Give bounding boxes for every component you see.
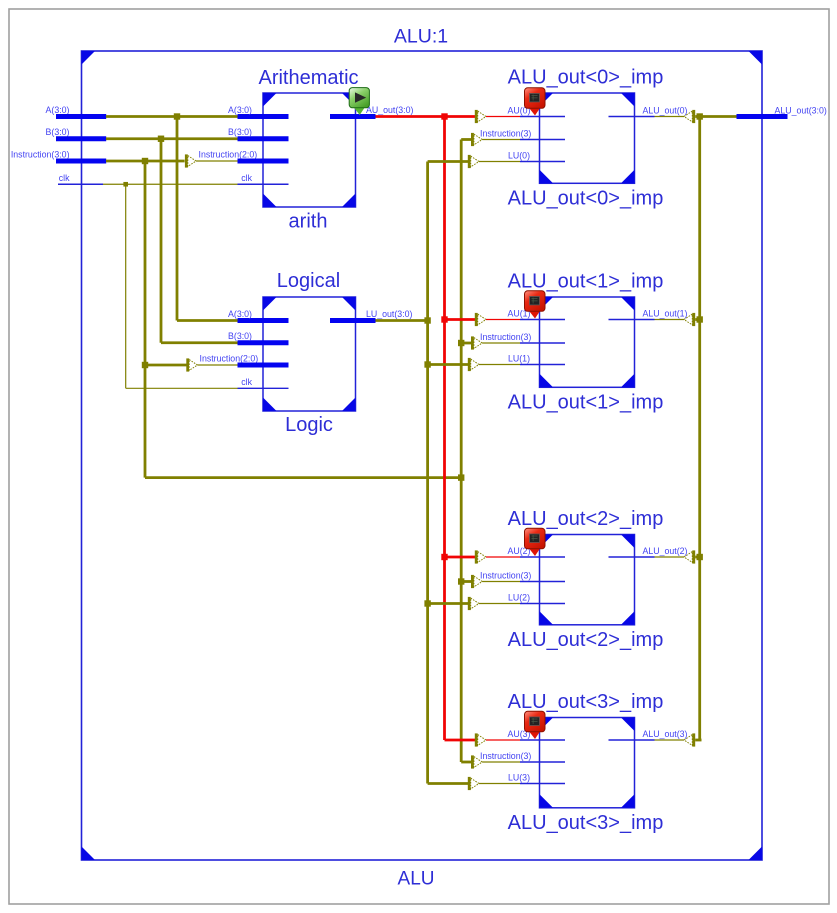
junction ALU_out bus row1: [697, 316, 703, 322]
junction IN bus row2: [458, 578, 464, 584]
wire ALU_out(1) to bus: [695, 318, 701, 321]
red marker on ALU_out<2>_imp: [525, 528, 546, 556]
wire ALU_out bus to port: [700, 115, 737, 118]
svg-text:Instruction(3): Instruction(3): [480, 570, 531, 580]
svg-text:Instruction(3:0): Instruction(3:0): [11, 150, 70, 160]
wire Instruction(3) bus vertical: [460, 140, 463, 763]
wire AU(3) thin: [486, 739, 520, 741]
bus ripper LU(2): [468, 597, 479, 610]
wire AU(1) branch: [445, 318, 476, 321]
svg-text:clk: clk: [241, 173, 252, 183]
block Logic (Logical): [263, 297, 356, 411]
svg-text:clk: clk: [59, 173, 70, 183]
block ALU_out<3>_imp: [540, 718, 635, 808]
wire A tap to Logic: [177, 319, 238, 322]
svg-text:ALU_out<0>_imp: ALU_out<0>_imp: [508, 67, 664, 89]
arith pin Instruction(2:0) stub: [238, 159, 289, 164]
wire AU_out(3:0) from arith: [376, 115, 476, 118]
logic pin clk stub: [238, 387, 289, 389]
junction AU bus row2: [441, 554, 447, 560]
wire clk to arith: [103, 183, 238, 185]
wire A(3:0) port to arith: [106, 115, 238, 118]
wire ALU_out(1) thin: [655, 319, 685, 321]
output port ALU_out(3:0) bus stub: [737, 114, 788, 119]
wire ALU_out(0) to bus: [695, 115, 701, 118]
svg-text:ALU: ALU: [398, 869, 435, 890]
wire Instruction(3) thin 1: [482, 342, 520, 344]
bus ripper Instruction(3) 1: [471, 336, 482, 349]
wire LU(1) thin: [479, 364, 520, 366]
wire LU(0) branch: [428, 160, 469, 163]
bus merge ALU_out(2): [684, 550, 695, 563]
pin stub LU(1): [520, 364, 565, 366]
svg-text:B(3:0): B(3:0): [46, 127, 70, 137]
bus ripper LU(1): [468, 358, 479, 371]
svg-text:LU_out(3:0): LU_out(3:0): [366, 309, 413, 319]
pin stub Instruction(3) 1: [520, 342, 565, 344]
junction AU bus row0: [441, 113, 447, 119]
svg-text:AU_out(3:0): AU_out(3:0): [366, 105, 413, 115]
bus ripper AU(1): [475, 313, 486, 326]
arith pin clk stub: [238, 183, 289, 185]
wire AU(1) thin: [486, 319, 520, 321]
wire Instruction(3) branch 2: [461, 580, 471, 583]
input port Instruction(3:0) bus stub: [56, 159, 106, 164]
wire Instruction tap vertical: [144, 161, 147, 478]
svg-text:ALU:1: ALU:1: [394, 25, 448, 47]
svg-text:Instruction(2:0): Instruction(2:0): [199, 150, 258, 160]
svg-text:B(3:0): B(3:0): [228, 127, 252, 137]
svg-text:LU(3): LU(3): [508, 772, 530, 782]
wire Instruction(3) branch 3: [461, 761, 471, 764]
bus ripper Instruction(2:0) logic: [186, 358, 197, 371]
logic pin A(3:0) stub: [238, 318, 289, 323]
wire A tap vertical: [176, 117, 179, 321]
svg-text:A(3:0): A(3:0): [46, 105, 70, 115]
svg-text:LU(0): LU(0): [508, 150, 530, 160]
junction LU bus row1: [424, 361, 430, 367]
pin stub Instruction(3) 0: [520, 139, 565, 141]
bus ripper LU(0): [468, 155, 479, 168]
red marker on ALU_out<1>_imp: [525, 291, 546, 319]
svg-text:A(3:0): A(3:0): [228, 105, 252, 115]
wire AU(2) thin: [486, 556, 520, 558]
svg-text:ALU_out<1>_imp: ALU_out<1>_imp: [508, 391, 664, 413]
wire ALU_out(2) thin: [655, 556, 685, 558]
pin stub ALU_out(1) output: [609, 319, 655, 321]
green marker on arith output: [349, 88, 369, 115]
wire Instruction(3) thin 0: [482, 139, 520, 141]
svg-text:ALU_out(2): ALU_out(2): [643, 546, 688, 556]
logic pin B(3:0) stub: [238, 340, 289, 345]
ALU block corner chamfers: [82, 51, 96, 65]
wire LU(1) branch: [428, 363, 469, 366]
pin stub Instruction(3) 2: [520, 581, 565, 583]
svg-text:Instruction(3): Instruction(3): [480, 128, 531, 138]
svg-text:Arithematic: Arithematic: [258, 67, 358, 89]
pin stub AU(2): [520, 556, 565, 558]
wire Instruction(3) branch 0: [461, 138, 471, 141]
pin stub LU(2): [520, 603, 565, 605]
junction ALU_out bus row2: [697, 554, 703, 560]
junction AU bus row1: [441, 316, 447, 322]
wire Instruction(3) feed horizontal: [145, 476, 461, 479]
red marker on ALU_out<0>_imp: [525, 88, 546, 116]
junction A tap: [174, 113, 180, 119]
svg-text:clk: clk: [241, 377, 252, 387]
wire AU(3) branch: [445, 739, 476, 742]
svg-text:ALU_out(3): ALU_out(3): [643, 729, 688, 739]
input port B(3:0) bus stub: [56, 136, 106, 141]
svg-text:ALU_out<1>_imp: ALU_out<1>_imp: [508, 271, 664, 293]
block ALU_out<1>_imp: [540, 297, 635, 387]
arith pin A(3:0) stub: [238, 114, 289, 119]
svg-text:ALU_out(3:0): ALU_out(3:0): [775, 106, 827, 116]
wire ALU_out bus vertical: [698, 117, 701, 741]
svg-text:ALU_out<2>_imp: ALU_out<2>_imp: [508, 508, 664, 530]
pin stub AU(1): [520, 319, 565, 321]
logic output LU_out(3:0) stub: [330, 318, 376, 323]
arith pin B(3:0) stub: [238, 136, 289, 141]
wire Instruction(3) thin 3: [482, 761, 520, 763]
junction IN bus row1: [458, 340, 464, 346]
pin stub ALU_out(2) output: [609, 556, 655, 558]
red marker on ALU_out<3>_imp: [525, 711, 546, 739]
junction LU bus row2: [424, 600, 430, 606]
svg-text:LU(2): LU(2): [508, 592, 530, 602]
wire LU(0) thin: [479, 161, 520, 163]
wire B(3:0) port to arith: [106, 137, 238, 140]
bus ripper Instruction(3) 2: [471, 575, 482, 588]
wire LU bus vertical: [426, 162, 429, 784]
wire ALU_out(3) to bus: [695, 739, 701, 742]
svg-text:A(3:0): A(3:0): [228, 309, 252, 319]
pin stub ALU_out(0) output: [609, 116, 655, 118]
wire Instruction to Logic ripper: [145, 364, 187, 367]
bus ripper AU(3): [475, 733, 486, 746]
wire LU(3) thin: [479, 783, 520, 785]
junction B tap: [158, 136, 164, 142]
wire AU(2) branch: [445, 556, 476, 559]
bus ripper Instruction(2:0) arith: [185, 154, 196, 167]
pin stub AU(0): [520, 116, 565, 118]
pin stub ALU_out(3) output: [609, 739, 655, 741]
input port A(3:0) bus stub: [56, 114, 106, 119]
bus ripper AU(0): [475, 110, 486, 123]
pin stub LU(0): [520, 161, 565, 163]
wire clk tap to Logic: [126, 387, 238, 389]
wire ALU_out(3) thin: [655, 739, 685, 741]
junction ALU_out bus row0: [697, 113, 703, 119]
svg-text:ALU_out(1): ALU_out(1): [643, 308, 688, 318]
ALU top-level block U0 outline: [82, 51, 763, 860]
svg-text:ALU_out<2>_imp: ALU_out<2>_imp: [508, 629, 664, 651]
wire Instruction(3) branch 1: [461, 342, 471, 345]
svg-text:Instruction(2:0): Instruction(2:0): [200, 354, 259, 364]
svg-text:ALU_out<3>_imp: ALU_out<3>_imp: [508, 812, 664, 834]
wire Instruction(3:0) port to ripper: [106, 160, 185, 163]
arith output AU_out(3:0) stub: [330, 114, 376, 119]
wire B tap vertical: [160, 139, 163, 343]
junction Instruction tap: [142, 158, 148, 164]
block ALU_out<0>_imp: [540, 93, 635, 183]
bus merge ALU_out(1): [684, 313, 695, 326]
bus ripper Instruction(3) 0: [471, 133, 482, 146]
wire ALU_out(2) to bus: [695, 556, 701, 559]
wire LU(2) thin: [479, 603, 520, 605]
junction Instruction feed: [458, 474, 464, 480]
bus ripper LU(3): [468, 777, 479, 790]
wire LU(3) branch: [428, 782, 469, 785]
svg-text:B(3:0): B(3:0): [228, 331, 252, 341]
wire LU(2) branch: [428, 602, 469, 605]
logic pin Instruction(2:0) stub: [238, 363, 289, 368]
svg-text:ALU_out<3>_imp: ALU_out<3>_imp: [508, 691, 664, 713]
svg-text:ALU_out(0): ALU_out(0): [643, 105, 688, 115]
bus merge ALU_out(0): [684, 110, 695, 123]
bus ripper Instruction(3) 3: [471, 755, 482, 768]
wire Instruction(3) thin 2: [482, 581, 520, 583]
pin stub LU(3): [520, 783, 565, 785]
bus merge ALU_out(3): [684, 733, 695, 746]
clk port stub wire: [58, 183, 103, 185]
wire ALU_out(0) thin: [655, 116, 685, 118]
junction clk tap: [123, 182, 128, 187]
junction Instruction to Logic: [142, 362, 148, 368]
wire AU(0) thin: [486, 116, 520, 118]
svg-text:ALU_out<0>_imp: ALU_out<0>_imp: [508, 187, 664, 209]
pin stub AU(3): [520, 739, 565, 741]
block arith (Arithematic): [263, 93, 356, 207]
block ALU_out<2>_imp: [540, 535, 635, 625]
svg-text:Instruction(3): Instruction(3): [480, 751, 531, 761]
junction LU feed: [424, 317, 430, 323]
pin stub Instruction(3) 3: [520, 761, 565, 763]
svg-text:Instruction(3): Instruction(3): [480, 332, 531, 342]
svg-text:arith: arith: [289, 211, 328, 233]
wire AU bus vertical: [443, 117, 446, 741]
wire LU_out(3:0) from Logic: [376, 319, 428, 322]
svg-text:LU(1): LU(1): [508, 353, 530, 363]
svg-text:Logic: Logic: [285, 414, 333, 436]
svg-text:Logical: Logical: [277, 270, 340, 292]
wire clk tap vertical: [125, 184, 127, 388]
bus ripper AU(2): [475, 550, 486, 563]
wire B tap to Logic: [161, 341, 238, 344]
